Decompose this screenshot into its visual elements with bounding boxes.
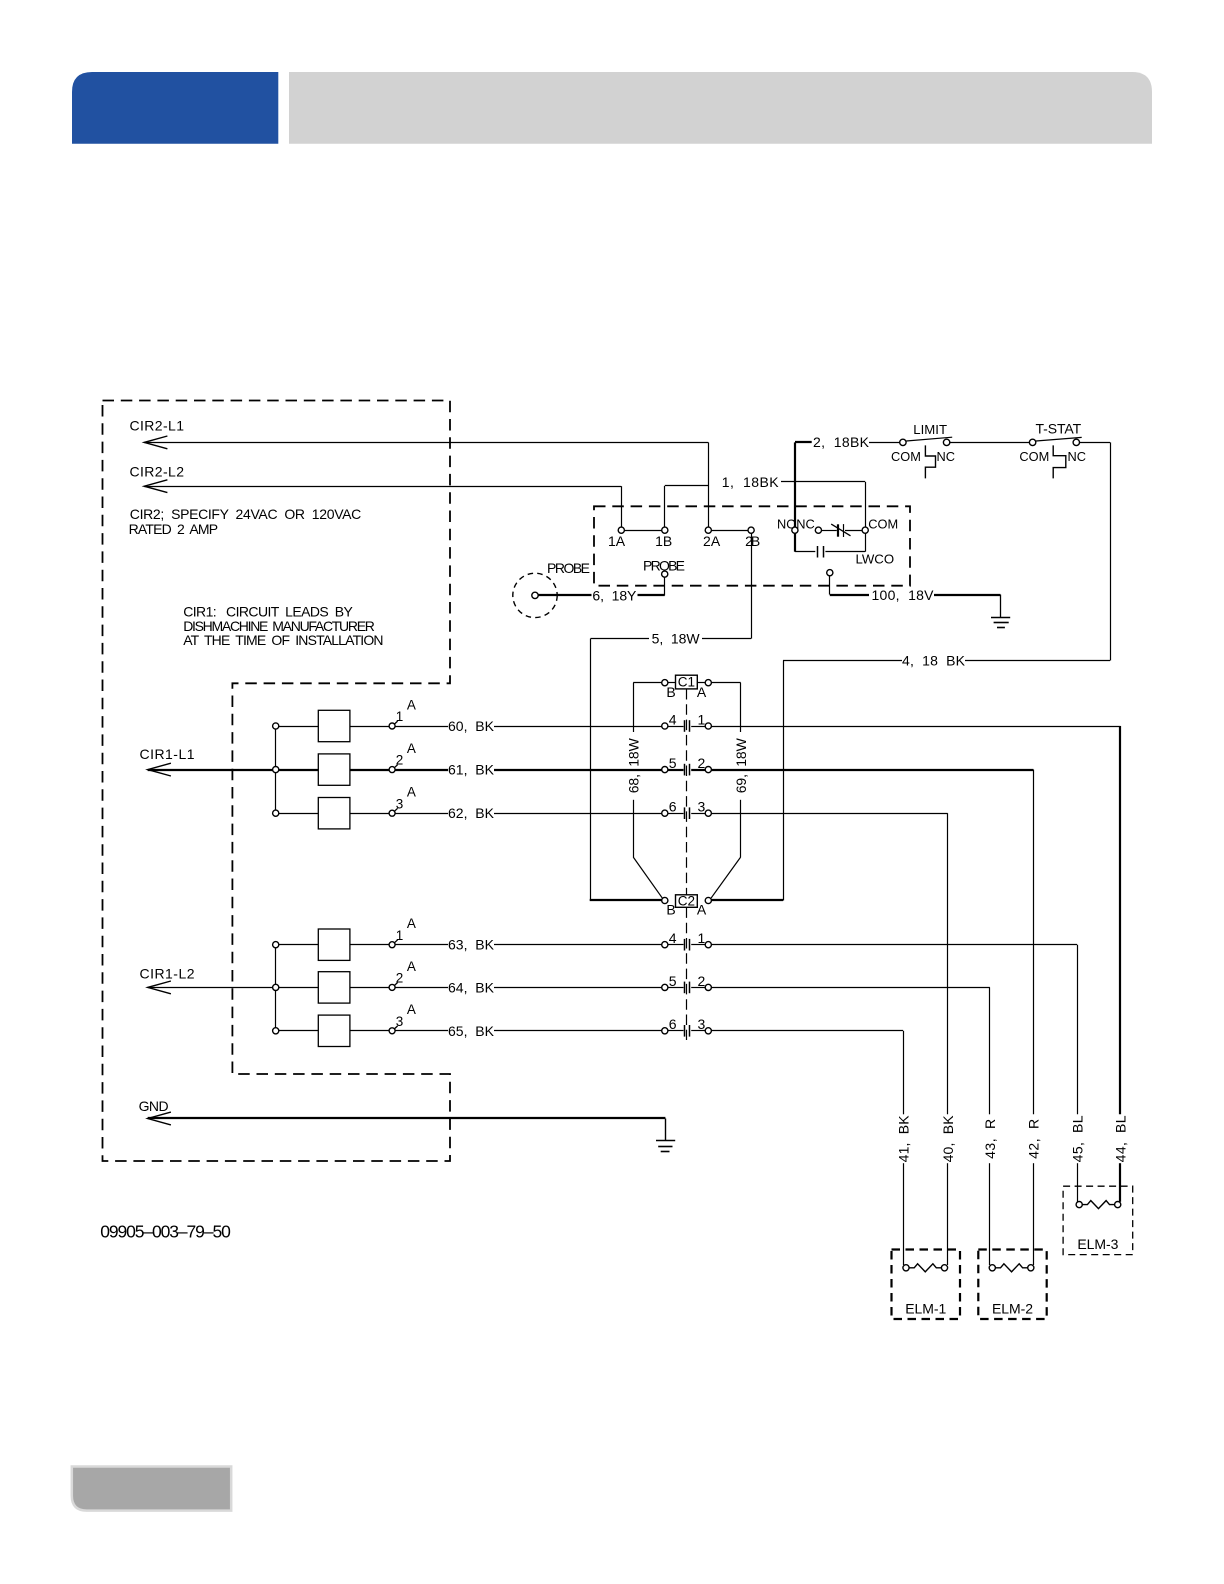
- wire riser to relay COM: [865, 482, 867, 527]
- header gray bar: [289, 72, 1152, 144]
- svg-text:A: A: [407, 916, 416, 931]
- C2 pin 2 terminal: [705, 984, 711, 990]
- relay terminal NC: [815, 527, 821, 533]
- svg-text:LWCO: LWCO: [856, 551, 895, 566]
- breaker square 60, BK: [318, 710, 350, 741]
- wire 42, R upper segment: [1033, 770, 1035, 1115]
- wire 68, 18W upper segment: [633, 683, 635, 732]
- wire T-STAT NC down to 4, 18 BK: [1110, 442, 1112, 660]
- breaker square 65, BK: [318, 1015, 350, 1046]
- wire up to PROBE terminal: [664, 577, 666, 595]
- svg-text:45, BL: 45, BL: [1069, 1115, 1085, 1162]
- T-STAT reset step symbol: [1053, 445, 1066, 478]
- svg-text:62, BK: 62, BK: [448, 805, 495, 821]
- wire C2 pin 4 lead: [668, 944, 684, 946]
- wire 65, BK right segment: [711, 1030, 903, 1032]
- wire 62, BK right segment: [711, 813, 947, 815]
- svg-text:44, BL: 44, BL: [1113, 1115, 1129, 1162]
- wire 6, 18Y right bold: [638, 594, 665, 596]
- PROBE terminal circle: [662, 571, 668, 577]
- wire riser to 2A: [708, 442, 710, 527]
- wire bus to breaker 1: [279, 726, 319, 728]
- wire 69, 18W lower segment: [740, 800, 742, 857]
- svg-text:A: A: [407, 785, 416, 800]
- junction CIR1-L2 bus row 3: [273, 1028, 279, 1034]
- wire bus to breaker 2: [279, 987, 319, 989]
- svg-text:COM: COM: [868, 516, 898, 531]
- ELM-2 terminal right: [1028, 1265, 1034, 1271]
- C2 contact bar left pin 5: [684, 982, 686, 994]
- wire 1, 18BK to relay COM: [781, 481, 865, 483]
- svg-text:PROBE: PROBE: [547, 560, 590, 576]
- heater element ELM-3 dashed box: [1063, 1186, 1133, 1254]
- svg-text:ELM-2: ELM-2: [992, 1301, 1033, 1317]
- connector C2 pin B: [662, 897, 668, 903]
- wire T-STAT NC stub: [1080, 442, 1111, 444]
- C2 contact bar left pin 4: [684, 939, 686, 951]
- wire C2 pin 6 lead: [668, 1030, 684, 1032]
- wire C1-B stub: [668, 682, 676, 684]
- svg-text:6: 6: [669, 1016, 677, 1032]
- heater element ELM-1 dashed box: [892, 1250, 961, 1320]
- wire 2, 18BK bold stub: [795, 441, 812, 443]
- LWCO capacitor right plate: [823, 546, 825, 558]
- heater element ELM-2 dashed box: [978, 1250, 1046, 1320]
- wire 61, BK middle segment bold: [494, 769, 662, 771]
- wire 4, 18 BK right segment: [965, 660, 1110, 662]
- switch blade stub 3A: [394, 808, 397, 811]
- svg-text:64, BK: 64, BK: [448, 979, 495, 995]
- wire bus to breaker 3: [279, 813, 319, 815]
- svg-text:1: 1: [396, 928, 404, 943]
- wire 40, BK lower segment: [947, 1163, 949, 1265]
- svg-text:1A: 1A: [608, 533, 626, 549]
- footer gray tab: [72, 1467, 231, 1511]
- svg-text:1: 1: [698, 711, 706, 727]
- svg-text:1, 18BK: 1, 18BK: [722, 474, 779, 490]
- wire 1B jog to 2A riser: [665, 485, 709, 487]
- wire C2 pin 1 lead: [691, 944, 705, 946]
- wire to LWCO capacitor left: [795, 551, 815, 553]
- wire CIR1-L2 bus vertical: [275, 945, 277, 1031]
- svg-text:A: A: [407, 697, 416, 712]
- svg-text:4: 4: [669, 711, 677, 727]
- svg-text:A: A: [407, 741, 416, 756]
- wire C1 pin 2 lead: [691, 769, 705, 771]
- svg-text:2: 2: [396, 971, 404, 986]
- wire breaker to switch 3: [350, 813, 389, 815]
- svg-text:3: 3: [396, 796, 404, 811]
- dashed field-wiring boundary outline: [103, 401, 451, 1162]
- C1 pin 3 terminal: [705, 810, 711, 816]
- svg-text:2: 2: [698, 973, 706, 989]
- svg-text:B: B: [666, 902, 675, 918]
- header blue bar: [72, 72, 278, 144]
- ELM-1 terminal right: [941, 1265, 947, 1271]
- svg-text:5: 5: [669, 755, 677, 771]
- svg-text:CIR2-L2: CIR2-L2: [130, 464, 185, 480]
- svg-text:B: B: [666, 684, 675, 700]
- wire C2 pin 5 lead: [668, 987, 684, 989]
- C2 pin 6 terminal: [662, 1028, 668, 1034]
- wire C1-A lead right: [711, 682, 740, 684]
- svg-text:42, R: 42, R: [1026, 1119, 1042, 1159]
- wire 63, BK right segment: [711, 944, 1077, 946]
- wire 5, 18W right segment: [702, 638, 751, 640]
- svg-text:CIR2-L1: CIR2-L1: [130, 418, 185, 434]
- svg-text:2: 2: [698, 755, 706, 771]
- connector C1 dashed mating line: [686, 689, 688, 895]
- svg-text:3: 3: [698, 1016, 706, 1032]
- C1 contact bar left pin 6: [684, 807, 686, 819]
- wire 100, 18V left bold: [830, 594, 869, 596]
- wire C1 pin 3 lead: [691, 813, 705, 815]
- svg-text:69, 18W: 69, 18W: [733, 737, 749, 793]
- connector C1 box: [676, 675, 698, 689]
- svg-text:C2: C2: [678, 894, 695, 909]
- svg-text:CIR1-L2: CIR1-L2: [140, 966, 195, 982]
- wire C1-A stub: [697, 682, 705, 684]
- switch blade stub 2A: [394, 983, 397, 986]
- ELM-2 terminal left: [989, 1265, 995, 1271]
- wire bus to breaker 1: [279, 944, 319, 946]
- connector C1 pin A: [705, 680, 711, 686]
- svg-text:5, 18W: 5, 18W: [652, 630, 701, 646]
- wire bus to breaker 2: [279, 769, 319, 771]
- wire link 1A-1B: [624, 530, 661, 532]
- svg-text:68, 18W: 68, 18W: [626, 737, 642, 793]
- wire breaker to switch 3: [350, 1030, 389, 1032]
- wire 60, BK middle segment: [494, 726, 662, 728]
- wire switch to label 63, BK: [395, 944, 448, 946]
- C1 pin 2 terminal: [705, 767, 711, 773]
- wire switch to label 61, BK: [395, 769, 448, 771]
- wire C1 pin 6 lead: [668, 813, 684, 815]
- wire GND down to ground: [665, 1119, 667, 1141]
- wire C1-B lead left: [633, 682, 662, 684]
- C1 contact bar right pin 1: [689, 720, 691, 732]
- breaker square 62, BK: [318, 798, 350, 829]
- svg-text:A: A: [697, 684, 707, 700]
- wire switch to label 60, BK: [395, 726, 448, 728]
- terminal 1A: [618, 527, 624, 533]
- C2 pin 5 terminal: [662, 984, 668, 990]
- svg-text:4: 4: [669, 930, 677, 946]
- switch blade stub 1A: [394, 940, 397, 943]
- relay terminal NO: [792, 527, 798, 533]
- wire 100, 18V right bold: [934, 594, 1000, 596]
- wire 64, BK middle segment: [494, 987, 662, 989]
- ground symbol (GND): [656, 1140, 675, 1142]
- wire terminal 1B riser: [664, 486, 666, 527]
- svg-text:41, BK: 41, BK: [895, 1115, 911, 1163]
- relay contact bar thin: [843, 524, 845, 537]
- svg-text:NC: NC: [796, 516, 814, 531]
- connector C1 pin B: [662, 680, 668, 686]
- svg-text:6, 18Y: 6, 18Y: [592, 588, 637, 604]
- junction CIR1-L1 bus row 1: [273, 723, 279, 729]
- connector C2 box: [676, 895, 698, 908]
- switch blade stub 2A: [394, 765, 397, 768]
- wire 65, BK middle segment: [494, 1030, 662, 1032]
- switch contact 1A: [389, 723, 395, 729]
- switch LIMIT NC contact: [943, 439, 949, 445]
- C1 contact bar left pin 5: [684, 764, 686, 776]
- switch contact 2A: [389, 984, 395, 990]
- C1 pin 6 terminal: [662, 810, 668, 816]
- wire 43, R upper segment: [989, 987, 991, 1114]
- wire breaker to switch 1: [350, 944, 389, 946]
- C1 pin 5 terminal: [662, 767, 668, 773]
- svg-text:B: B: [751, 533, 760, 549]
- switch contact 3A: [389, 810, 395, 816]
- terminal 2A: [705, 527, 711, 533]
- svg-text:2A: 2A: [703, 533, 721, 549]
- wire bold riser to relay NO: [794, 442, 796, 527]
- wire relay COM down: [865, 533, 867, 551]
- wire breaker to switch 1: [350, 726, 389, 728]
- wire down to ground: [1000, 595, 1002, 618]
- svg-text:CIR1-L1: CIR1-L1: [140, 746, 195, 762]
- wire 68, 18W lower segment: [633, 800, 635, 857]
- svg-text:A: A: [407, 959, 416, 974]
- wire C2 pin 3 lead: [691, 1030, 705, 1032]
- svg-text:4, 18 BK: 4, 18 BK: [902, 652, 966, 668]
- svg-text:T-STAT: T-STAT: [1036, 421, 1082, 437]
- wire 42, R lower segment: [1033, 1163, 1035, 1265]
- wire C1 pin 1 lead: [691, 726, 705, 728]
- wire 6, 18Y left bold: [538, 594, 591, 596]
- C1 contact bar right pin 2: [689, 764, 691, 776]
- C2 pin 4 terminal: [662, 942, 668, 948]
- C2 contact bar right pin 2: [689, 982, 691, 994]
- svg-text:65, BK: 65, BK: [448, 1023, 495, 1039]
- wire 40, BK upper segment: [947, 813, 949, 1114]
- svg-text:43, R: 43, R: [982, 1119, 998, 1159]
- svg-text:100, 18V: 100, 18V: [872, 587, 935, 603]
- wire CIR1-L2 feed: [148, 987, 273, 989]
- svg-text:CIR2; SPECIFY 24VAC OR 120: CIR2; SPECIFY 24VAC OR 120VAC: [130, 506, 361, 522]
- svg-text:40, BK: 40, BK: [940, 1115, 956, 1163]
- breaker square 64, BK: [318, 972, 350, 1003]
- wire 4, 18 BK left segment: [783, 660, 902, 662]
- wire 45, BL lower segment: [1077, 1163, 1079, 1202]
- C1 contact bar right pin 3: [689, 807, 691, 819]
- svg-text:09905–003–79–50: 09905–003–79–50: [100, 1222, 231, 1242]
- svg-text:3: 3: [396, 1014, 404, 1029]
- C1 pin 4 terminal: [662, 723, 668, 729]
- wire coil terminal down: [829, 576, 831, 595]
- C2 pin 1 terminal: [705, 942, 711, 948]
- relay LWCO dashed enclosure: [594, 506, 910, 585]
- wire 2, 18BK to LIMIT COM: [869, 442, 900, 444]
- wire contact bar to relay COM: [845, 530, 862, 532]
- svg-text:NC: NC: [1068, 449, 1086, 464]
- wire 45, BL upper segment: [1077, 945, 1079, 1115]
- arrowhead CIR1-L1: [148, 763, 171, 776]
- wire 44, BL upper segment: [1119, 726, 1121, 1114]
- wire breaker to switch 2: [350, 769, 389, 771]
- svg-text:ELM-3: ELM-3: [1077, 1236, 1118, 1252]
- svg-text:AT THE TIME OF INSTALLATIO: AT THE TIME OF INSTALLATION: [183, 632, 383, 648]
- wire 63, BK middle segment: [494, 944, 662, 946]
- svg-text:5: 5: [669, 973, 677, 989]
- svg-text:63, BK: 63, BK: [448, 937, 495, 953]
- switch T-STAT NC contact: [1073, 439, 1079, 445]
- arrowhead CIR2-L1: [144, 436, 167, 449]
- relay contact bar thick: [837, 524, 839, 536]
- wire C1 pin 4 lead: [668, 726, 684, 728]
- wire link 2A-2B: [711, 530, 748, 532]
- wire riser to 2B: [751, 533, 753, 638]
- relay coil terminal: [827, 570, 833, 576]
- terminal 1B: [662, 527, 668, 533]
- svg-text:1: 1: [698, 930, 706, 946]
- wire 62, BK middle segment: [494, 813, 662, 815]
- switch LIMIT blade: [906, 437, 952, 441]
- wire 69, 18W upper segment: [740, 683, 742, 732]
- relay terminal COM: [862, 527, 868, 533]
- svg-text:2, 18BK: 2, 18BK: [813, 434, 870, 450]
- wire LIMIT NC to T-STAT COM: [950, 442, 1030, 444]
- svg-text:A: A: [407, 1002, 416, 1017]
- svg-text:3: 3: [698, 799, 706, 815]
- wire bus to breaker 3: [279, 1030, 319, 1032]
- arrowhead CIR2-L2: [144, 480, 167, 493]
- wire 68, 18W diagonal to C2-B: [633, 857, 662, 898]
- wire bold into C2-A: [711, 899, 783, 901]
- wire switch to label 62, BK: [395, 813, 448, 815]
- switch T-STAT COM contact: [1029, 439, 1035, 445]
- wire relay NO down bold: [794, 533, 796, 551]
- switch T-STAT blade: [1036, 437, 1082, 441]
- svg-text:A: A: [697, 902, 707, 918]
- switch contact 2A: [389, 767, 395, 773]
- breaker square 61, BK: [318, 754, 350, 785]
- wire relay NC to contact bar: [822, 530, 837, 532]
- svg-text:6: 6: [669, 799, 677, 815]
- svg-text:NC: NC: [937, 449, 955, 464]
- C2 contact bar right pin 3: [689, 1025, 691, 1037]
- relay contact slash: [831, 524, 850, 536]
- wire 41, BK upper segment: [903, 1031, 905, 1115]
- wire switch to label 65, BK: [395, 1030, 448, 1032]
- wire riser to 1A: [621, 486, 623, 527]
- wire 69, 18W diagonal to C2-A: [711, 857, 741, 898]
- junction CIR1-L2 bus row 2: [273, 984, 279, 990]
- wire 44, BL lower segment: [1119, 1163, 1121, 1202]
- svg-text:C1: C1: [678, 675, 695, 690]
- wire 64, BK right segment: [711, 987, 990, 989]
- C2 contact bar right pin 1: [689, 939, 691, 951]
- junction CIR1-L1 bus row 3: [273, 810, 279, 816]
- resistor ELM-3: [1082, 1201, 1114, 1209]
- terminal 2B: [748, 527, 754, 533]
- svg-text:LIMIT: LIMIT: [913, 422, 947, 437]
- wire 60, BK right segment: [711, 726, 1120, 728]
- junction CIR1-L1 bus row 2: [273, 767, 279, 773]
- wire switch to label 64, BK: [395, 987, 448, 989]
- svg-text:PROBE: PROBE: [643, 557, 685, 573]
- svg-text:1: 1: [396, 709, 404, 724]
- LIMIT reset step symbol: [925, 445, 935, 478]
- wire CIR1-L1 feed bold: [148, 769, 273, 771]
- wire 43, R lower segment: [989, 1163, 991, 1265]
- wire breaker to switch 2: [350, 987, 389, 989]
- switch contact 3A: [389, 1028, 395, 1034]
- C1 contact bar left pin 4: [684, 720, 686, 732]
- wire 5, 18W left segment: [591, 638, 650, 640]
- wire GND bold: [148, 1117, 666, 1119]
- ELM-3 terminal left: [1076, 1202, 1082, 1208]
- junction CIR1-L2 bus row 1: [273, 942, 279, 948]
- wire CIR2-L2 to terminal 1A: [144, 486, 621, 488]
- connector C2 pin A: [705, 897, 711, 903]
- svg-text:61, BK: 61, BK: [448, 762, 495, 778]
- svg-text:COM: COM: [1019, 449, 1049, 464]
- wire 5, 18W riser: [590, 639, 592, 901]
- probe terminal circle: [532, 592, 538, 598]
- wire bold into C2-B: [590, 899, 662, 901]
- wire CIR1-L1 bus vertical: [275, 726, 277, 813]
- svg-text:60, BK: 60, BK: [448, 718, 495, 734]
- switch contact 1A: [389, 942, 395, 948]
- wire 41, BK lower segment: [903, 1163, 905, 1265]
- C1 pin 1 terminal: [705, 723, 711, 729]
- wire 61, BK right segment bold: [711, 769, 1033, 771]
- wire 4, 18 BK down to C2-A: [783, 661, 785, 901]
- svg-text:GND: GND: [139, 1098, 169, 1114]
- wire C2 pin 2 lead: [691, 987, 705, 989]
- ELM-1 terminal left: [903, 1265, 909, 1271]
- wire C1 pin 5 lead: [668, 769, 684, 771]
- switch blade stub 1A: [394, 721, 397, 724]
- switch LIMIT COM contact: [900, 439, 906, 445]
- svg-text:RATED 2 AMP: RATED 2 AMP: [129, 521, 219, 537]
- ground symbol (100, 18V): [991, 617, 1010, 619]
- svg-text:1B: 1B: [655, 533, 672, 549]
- LWCO capacitor left plate: [817, 546, 819, 558]
- wire CIR2-L1 to terminal 2A: [144, 442, 708, 444]
- svg-text:ELM-1: ELM-1: [905, 1301, 946, 1317]
- arrowhead GND: [148, 1112, 171, 1125]
- resistor ELM-2: [995, 1264, 1027, 1272]
- probe dashed circle: [513, 573, 557, 617]
- svg-text:2: 2: [396, 753, 404, 768]
- resistor ELM-1: [909, 1264, 941, 1272]
- svg-text:COM: COM: [891, 449, 921, 464]
- switch blade stub 3A: [394, 1026, 397, 1029]
- arrowhead CIR1-L2: [148, 981, 171, 994]
- connector C2 dashed mating line: [686, 907, 688, 1040]
- wire LWCO capacitor right: [825, 551, 865, 553]
- ELM-3 terminal right: [1115, 1202, 1121, 1208]
- breaker square 63, BK: [318, 929, 350, 960]
- C2 contact bar left pin 6: [684, 1025, 686, 1037]
- C2 pin 3 terminal: [705, 1028, 711, 1034]
